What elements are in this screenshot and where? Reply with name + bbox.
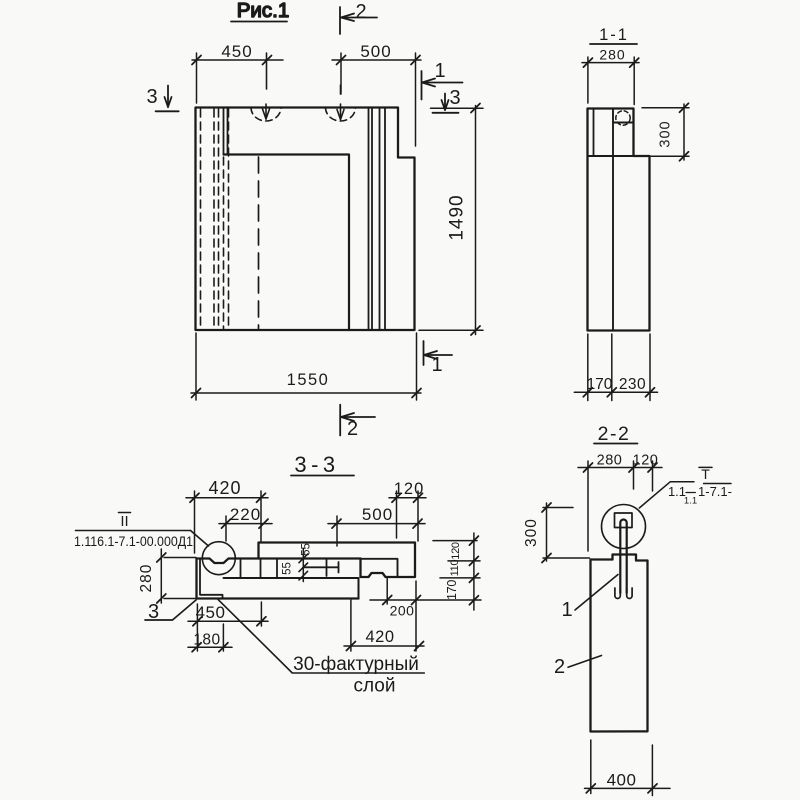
- section 2-2 title: [594, 423, 638, 445]
- svg-text:1490: 1490: [447, 194, 468, 240]
- top face line with groove: [197, 559, 361, 564]
- leader label 1 (2-2): [561, 575, 618, 622]
- facing layer edge solid short lines: [223, 108, 225, 155]
- svg-text:170: 170: [587, 376, 613, 393]
- dimension 220 (3-3): [219, 505, 272, 541]
- dimension 300 (2-2): [523, 503, 590, 563]
- svg-text:2: 2: [347, 418, 358, 440]
- section mark 2 bottom: [340, 405, 375, 440]
- section mark 1 bottom right: [424, 341, 453, 376]
- window opening: [224, 155, 350, 331]
- svg-text:280: 280: [597, 453, 623, 469]
- svg-text:120: 120: [450, 542, 462, 560]
- inner rib line: [612, 109, 614, 331]
- svg-text:170: 170: [445, 580, 459, 600]
- svg-text:1-7.1-: 1-7.1-: [698, 484, 732, 499]
- leader 30-фактурный слой: [218, 599, 424, 696]
- svg-text:280: 280: [599, 47, 625, 63]
- svg-text:Рис.1: Рис.1: [237, 0, 289, 22]
- svg-text:55: 55: [282, 562, 294, 575]
- svg-text:110: 110: [449, 560, 461, 577]
- section mark 3 left: [146, 86, 178, 112]
- svg-text:3: 3: [146, 86, 157, 108]
- loop box (1-1): [613, 122, 634, 124]
- section 1-1 body outline: [588, 109, 650, 331]
- svg-text:400: 400: [607, 771, 637, 790]
- dimension 120 (3-3 top right): [389, 480, 426, 541]
- svg-text:1: 1: [561, 599, 572, 621]
- dimension 180 (3-3 bottom): [188, 624, 232, 652]
- svg-text:II: II: [120, 513, 128, 530]
- dimension 55 55: [282, 543, 313, 581]
- lifting loop L2 dashed: [326, 85, 356, 121]
- left end outer edge: [197, 559, 359, 599]
- section 3-3 title: [291, 452, 354, 477]
- inner facing line: [593, 109, 595, 157]
- node label T fraction: [639, 466, 732, 508]
- dimension 280 (1-1): [582, 47, 639, 105]
- hidden long-dash line in opening: [258, 157, 260, 329]
- svg-text:220: 220: [230, 505, 261, 524]
- dimension 300 (1-1): [642, 103, 689, 161]
- svg-text:3-3: 3-3: [294, 452, 339, 477]
- dimension 450: [192, 42, 283, 103]
- section 3-3 body outline: [259, 543, 416, 578]
- dimension 280 (3-3 left): [138, 549, 196, 603]
- detail circle (2-2): [602, 505, 646, 549]
- svg-text:450: 450: [221, 42, 252, 61]
- svg-text:3: 3: [449, 87, 460, 109]
- svg-text:500: 500: [362, 505, 393, 524]
- svg-text:300: 300: [523, 518, 540, 547]
- section mark 1 top right: [422, 60, 463, 100]
- node label II: [119, 513, 131, 531]
- svg-text:1.116.1-7.1-00.000Д1: 1.116.1-7.1-00.000Д1: [74, 534, 193, 549]
- svg-text:420: 420: [208, 478, 241, 498]
- lifting loop wire (2-2): [620, 520, 626, 594]
- internal divider lines: [241, 559, 327, 579]
- section mark 3 right: [431, 87, 484, 113]
- svg-text:Т: Т: [701, 466, 710, 482]
- svg-text:200: 200: [390, 603, 415, 619]
- dimension 1490: [419, 104, 483, 336]
- dimension 500: [332, 42, 421, 146]
- dimensions 280 120 (2-2 top): [578, 453, 662, 552]
- hidden dashed layer lines: [201, 109, 229, 329]
- svg-text:2: 2: [554, 656, 565, 678]
- dimension 500 (3-3): [328, 505, 425, 546]
- internal step lines 55: [303, 562, 338, 573]
- section 1-1 title: [590, 26, 637, 44]
- detail circle node II: [202, 542, 235, 575]
- svg-text:230: 230: [619, 376, 646, 393]
- section mark 3 (3-3 lower left): [145, 600, 196, 623]
- svg-text:300: 300: [658, 120, 674, 147]
- svg-text:280: 280: [138, 564, 155, 593]
- dashed loop circle (1-1): [616, 111, 630, 125]
- dimension 400 (2-2): [585, 740, 671, 796]
- svg-text:1-1: 1-1: [599, 26, 629, 44]
- lifting loop L1 dashed: [251, 53, 281, 121]
- loop wire hooks (2-2): [615, 588, 620, 598]
- step line at y156: [588, 155, 634, 157]
- dimension 200 (3-3 bottom): [370, 578, 481, 651]
- right rib lines: [369, 108, 386, 330]
- svg-text:1.1: 1.1: [684, 496, 697, 507]
- section 2-2 body: [591, 555, 648, 732]
- section mark 2 top: [340, 1, 377, 34]
- svg-text:слой: слой: [354, 676, 396, 697]
- dimension 1550: [191, 333, 421, 400]
- left end inner facing line: [200, 559, 223, 599]
- svg-text:1: 1: [431, 354, 442, 376]
- dimensions 120 110 170 (3-3 right): [433, 533, 480, 610]
- inner jamb rectangle: [362, 559, 398, 577]
- svg-text:55: 55: [301, 543, 313, 556]
- dimension 420 (3-3 top): [186, 478, 268, 553]
- dimension 450 (3-3 bottom): [188, 602, 268, 651]
- loop anchor box (2-2): [615, 513, 633, 528]
- panel outline main view: [196, 108, 415, 331]
- designation text 1.116.1-7.1-00.000Д1: [74, 531, 209, 550]
- dimension 420 (3-3 bottom): [344, 600, 424, 651]
- svg-text:1: 1: [434, 60, 445, 82]
- svg-text:30-фактурный: 30-фактурный: [293, 654, 419, 675]
- title Рис.1: [231, 0, 289, 22]
- svg-text:2: 2: [355, 1, 366, 23]
- svg-text:420: 420: [365, 628, 394, 646]
- svg-text:500: 500: [360, 42, 391, 61]
- svg-text:2-2: 2-2: [598, 423, 631, 445]
- facing layer top line: [224, 578, 359, 599]
- leader label 2 (2-2): [554, 656, 602, 679]
- dimensions 170 230 (1-1): [574, 334, 657, 401]
- svg-text:1550: 1550: [287, 371, 330, 389]
